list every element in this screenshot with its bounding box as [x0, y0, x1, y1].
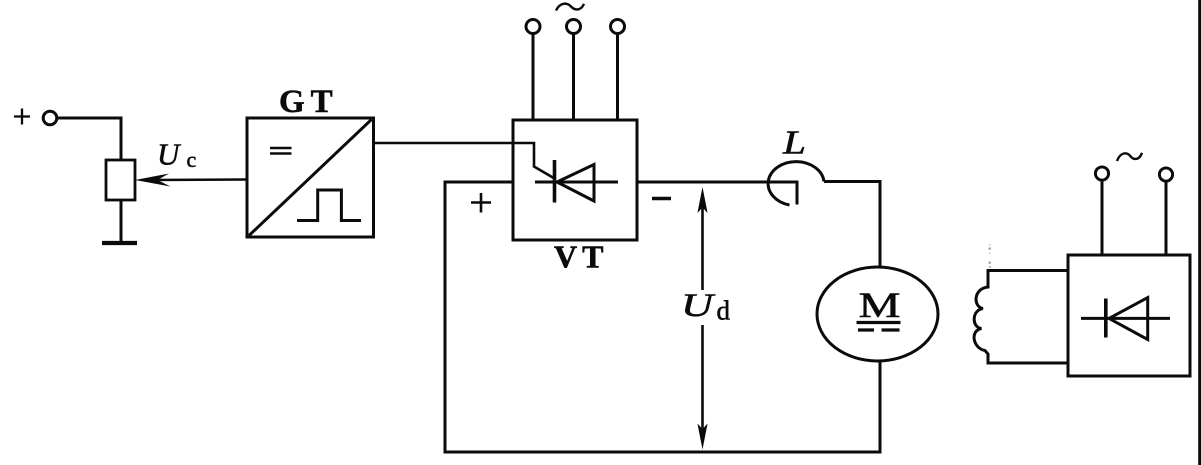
svg-text:d: d: [717, 296, 731, 326]
svg-text:GT: GT: [279, 84, 339, 120]
svg-text:M: M: [859, 285, 901, 325]
svg-text:L: L: [782, 125, 806, 162]
svg-text:U: U: [681, 288, 716, 324]
svg-text:VT: VT: [554, 239, 608, 275]
svg-text:c: c: [187, 147, 197, 172]
svg-text:U: U: [157, 137, 182, 172]
